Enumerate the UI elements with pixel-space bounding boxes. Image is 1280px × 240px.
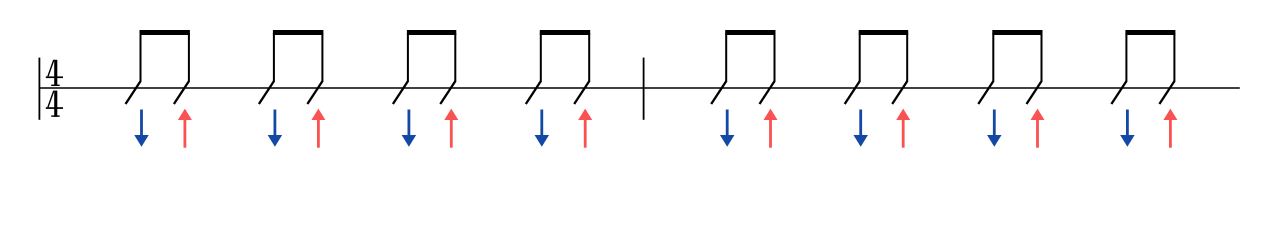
down-strum arrow D4 xyxy=(535,110,550,147)
note 2a slash notehead xyxy=(259,81,274,104)
note 3b stem xyxy=(454,33,456,82)
note 8b slash notehead xyxy=(1159,81,1174,104)
up-strum arrow U8 xyxy=(1163,109,1177,148)
up-strum arrow U1 xyxy=(178,109,192,148)
note 7b slash notehead xyxy=(1027,81,1042,104)
note pair 4 beam xyxy=(540,30,590,35)
note 6b stem xyxy=(906,33,908,82)
staff line xyxy=(39,87,1240,89)
note pair 7 beam xyxy=(992,30,1042,35)
note 6b slash notehead xyxy=(892,81,907,104)
note 5b stem xyxy=(774,33,776,82)
note pair 5 beam xyxy=(725,30,775,35)
note 6a stem xyxy=(859,33,861,82)
note 4a slash notehead xyxy=(526,81,541,104)
middle barline xyxy=(643,58,645,120)
note 8a stem xyxy=(1125,33,1127,82)
note pair 8 beam xyxy=(1125,30,1175,35)
note pair 1 beam xyxy=(140,30,190,35)
note 8a slash notehead xyxy=(1111,81,1126,104)
note pair 3 beam xyxy=(407,30,456,35)
up-strum arrow U5 xyxy=(764,109,778,148)
note 3a slash notehead xyxy=(393,81,408,104)
note 4b stem xyxy=(588,33,590,82)
up-strum arrow U3 xyxy=(444,109,458,148)
note 2a stem xyxy=(273,33,275,82)
note pair 6 beam xyxy=(859,30,909,35)
down-strum arrow D1 xyxy=(134,110,149,147)
down-strum arrow D8 xyxy=(1120,110,1135,147)
note 8b stem xyxy=(1173,33,1175,82)
up-strum arrow U6 xyxy=(896,109,910,148)
up-strum arrow U4 xyxy=(578,109,592,148)
down-strum arrow D2 xyxy=(268,110,283,147)
up-strum arrow U7 xyxy=(1031,109,1045,148)
note 5a slash notehead xyxy=(711,81,726,104)
note 3b slash notehead xyxy=(440,81,455,104)
time signature denominator 4 xyxy=(46,91,63,117)
note 5a stem xyxy=(725,33,727,82)
note 3a stem xyxy=(407,33,409,82)
note 1b stem xyxy=(188,33,190,82)
note 1a stem xyxy=(140,33,142,82)
time signature numerator 4 xyxy=(46,60,63,86)
note 7a slash notehead xyxy=(978,81,993,104)
note pair 2 beam xyxy=(273,30,324,35)
down-strum arrow D7 xyxy=(987,110,1002,147)
note 4a stem xyxy=(540,33,542,82)
down-strum arrow D5 xyxy=(720,110,735,147)
down-strum arrow D6 xyxy=(853,110,868,147)
note 1b slash notehead xyxy=(174,81,189,104)
note 1a slash notehead xyxy=(126,81,141,104)
note 6a slash notehead xyxy=(845,81,860,104)
note 4b slash notehead xyxy=(574,81,589,104)
start barline xyxy=(39,58,41,120)
note 2b slash notehead xyxy=(307,81,322,104)
down-strum arrow D3 xyxy=(402,110,417,147)
note 7b stem xyxy=(1041,33,1043,82)
note 2b stem xyxy=(321,33,323,82)
note 5b slash notehead xyxy=(760,81,775,104)
up-strum arrow U2 xyxy=(311,109,325,148)
note 7a stem xyxy=(992,33,994,82)
